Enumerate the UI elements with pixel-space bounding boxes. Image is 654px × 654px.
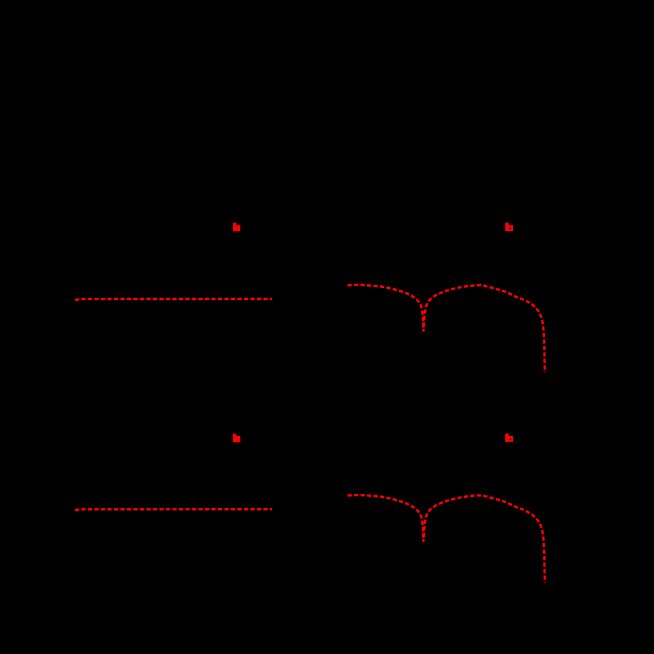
dashed notch curve, top-right panel	[348, 285, 545, 373]
dashed reference line, bottom-left panel	[75, 509, 272, 510]
label b, top-left panel	[233, 223, 240, 232]
label b, bottom-left panel	[233, 434, 240, 443]
dashed reference line, top-left panel	[75, 299, 272, 300]
label b, bottom-right panel	[505, 434, 513, 442]
dashed notch curve, bottom-right panel	[348, 495, 545, 583]
label b, top-right panel	[505, 223, 513, 231]
